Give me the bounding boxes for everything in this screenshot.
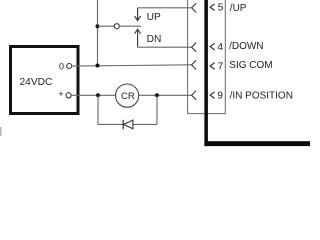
switch throw DN (up-pointing arrow) <box>137 30 139 48</box>
node junction (switch common tap) <box>96 24 100 28</box>
svg-text:4: 4 <box>217 42 223 53</box>
wire diode branch bottom <box>98 123 157 125</box>
terminal circle + <box>66 93 71 98</box>
svg-text:0: 0 <box>59 61 64 71</box>
svg-text:/UP: /UP <box>230 3 247 14</box>
svg-text:SIG COM: SIG COM <box>229 60 272 71</box>
diode D1 (cathode bar) <box>122 120 124 129</box>
svg-text:CR: CR <box>121 91 135 102</box>
svg-text:UP: UP <box>147 12 161 23</box>
diode D1 (triangle) <box>124 120 133 129</box>
wire switch pole <box>119 25 141 27</box>
pin chevron 7 <box>210 63 214 70</box>
switch throw UP (down-pointing arrow) <box>137 8 139 20</box>
wire SIG COM (0 terminal to pin 7) <box>72 65 192 66</box>
wire /UP (throw to pin 5) <box>138 7 192 9</box>
connector shell outline <box>188 0 226 114</box>
node junction (diode branch left) <box>96 93 100 97</box>
pin chevron 4 <box>210 43 214 50</box>
scan artifact left edge <box>0 127 2 136</box>
wire diode branch right <box>156 95 158 124</box>
pin chevron 9 <box>210 92 214 99</box>
terminal circle 0 <box>67 64 72 69</box>
relay coil CR <box>116 84 139 107</box>
wire diode branch left <box>97 95 99 124</box>
device edge vertical (thick) <box>204 0 208 146</box>
svg-text:7: 7 <box>218 61 224 72</box>
plug chevron /IN POSITION <box>192 91 197 100</box>
svg-text:/DOWN: /DOWN <box>229 41 263 52</box>
svg-text:5: 5 <box>218 3 224 14</box>
wire /DOWN (throw to pin 4) <box>138 46 192 48</box>
wire vertical switch common feed <box>97 0 99 66</box>
svg-text:DN: DN <box>147 34 162 45</box>
svg-text:24VDC: 24VDC <box>20 77 53 88</box>
plug chevron /DOWN <box>192 43 197 52</box>
svg-text:+: + <box>58 89 63 99</box>
plug chevron SIG COM <box>192 60 197 69</box>
node junction (diode branch right) <box>155 93 159 97</box>
pin chevron 5 <box>210 4 214 11</box>
wire switch common <box>98 25 115 27</box>
power supply box 24VDC <box>11 47 79 114</box>
device edge horizontal (thick) <box>204 141 310 146</box>
plug chevron /UP <box>192 3 197 12</box>
svg-text:9: 9 <box>217 91 223 102</box>
svg-text:/IN POSITION: /IN POSITION <box>230 91 293 102</box>
wire + to relay (pin 9 run) <box>71 94 115 96</box>
switch pole contact circle <box>114 24 119 29</box>
node junction (switch feed / SIG COM) <box>96 64 100 68</box>
